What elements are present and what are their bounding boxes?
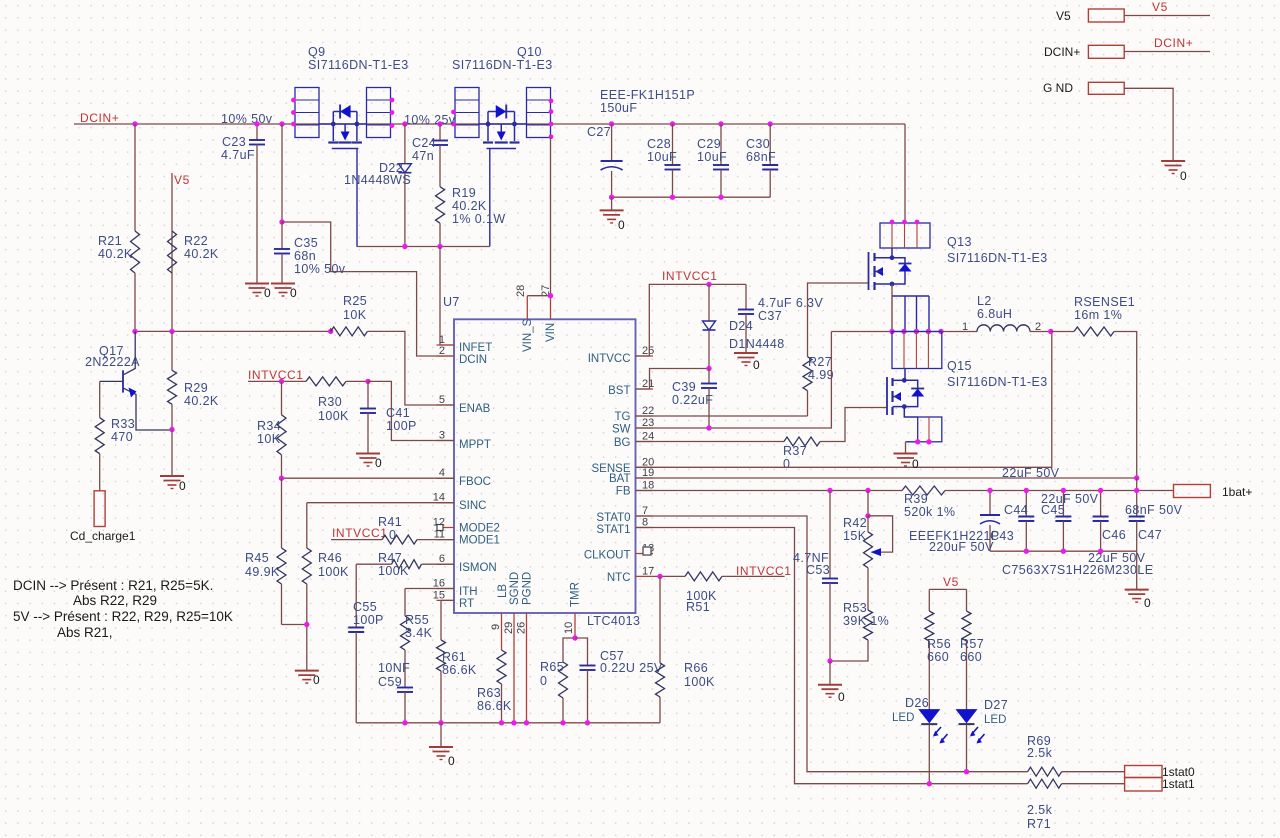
svg-text:LED: LED xyxy=(984,714,1006,726)
svg-text:Q10: Q10 xyxy=(517,45,542,59)
wire R29 to ground xyxy=(171,430,173,477)
junction D22 bottom xyxy=(402,244,407,249)
svg-text:26: 26 xyxy=(516,622,528,634)
pin stubs right xyxy=(636,355,654,357)
junction R19 top xyxy=(437,121,442,126)
svg-text:R45: R45 xyxy=(245,551,269,565)
svg-text:SI7116DN-T1-E3: SI7116DN-T1-E3 xyxy=(947,251,1048,265)
svg-text:0.22uF: 0.22uF xyxy=(672,393,713,407)
LED D27 xyxy=(957,710,977,723)
transistor Q13 package xyxy=(880,223,930,248)
junction C35 tap xyxy=(279,121,284,126)
junction Q13 pins xyxy=(890,220,895,225)
junction NTC xyxy=(657,574,662,579)
svg-text:660: 660 xyxy=(960,650,982,664)
junction FB C43 xyxy=(987,488,992,493)
svg-text:ISMON: ISMON xyxy=(459,562,497,574)
capacitor C28 xyxy=(672,124,674,165)
junction FB C45 xyxy=(1061,488,1066,493)
svg-text:25: 25 xyxy=(642,345,654,357)
transistor Q9 package right box xyxy=(367,88,391,138)
svg-text:LTC4013: LTC4013 xyxy=(587,614,640,628)
svg-text:1stat1: 1stat1 xyxy=(1162,777,1195,791)
svg-text:C27: C27 xyxy=(587,125,611,139)
capacitor C23 xyxy=(256,124,258,140)
svg-text:15K: 15K xyxy=(843,529,867,543)
resistor R37 xyxy=(784,437,820,446)
junction SW dots xyxy=(889,329,894,334)
svg-text:0.22U 25V: 0.22U 25V xyxy=(600,661,663,675)
junction Q15 source dots xyxy=(915,439,920,444)
svg-text:R42: R42 xyxy=(843,516,867,530)
junction bus2 C45 xyxy=(1061,549,1066,554)
svg-text:R37: R37 xyxy=(783,444,807,458)
junction R29 bottom xyxy=(169,427,174,432)
svg-text:V5: V5 xyxy=(1056,9,1071,23)
svg-text:5: 5 xyxy=(439,394,445,406)
svg-text:1bat+: 1bat+ xyxy=(1222,485,1252,499)
resistor R71 xyxy=(1028,779,1062,788)
svg-text:Q13: Q13 xyxy=(947,235,972,249)
component Cd_charge1 xyxy=(94,491,105,527)
transistor Q9 symbol xyxy=(328,141,338,143)
ground R29 xyxy=(160,475,184,477)
resistor R21 xyxy=(134,124,136,231)
svg-text:SI7116DN-T1-E3: SI7116DN-T1-E3 xyxy=(947,375,1048,389)
resistor R45 xyxy=(281,478,283,548)
svg-text:C24: C24 xyxy=(412,136,436,150)
svg-text:Abs R22, R29: Abs R22, R29 xyxy=(73,593,157,608)
wire SENSE net xyxy=(636,332,1052,468)
svg-text:DCIN+: DCIN+ xyxy=(1044,45,1080,59)
diode D22 xyxy=(404,124,406,164)
junction FB C44 xyxy=(1024,488,1029,493)
svg-text:0: 0 xyxy=(1144,596,1151,610)
svg-text:TMR: TMR xyxy=(570,582,582,607)
pin stubs left xyxy=(437,344,455,346)
svg-text:TG: TG xyxy=(615,411,631,423)
svg-text:L2: L2 xyxy=(977,294,992,308)
capacitor C53 xyxy=(829,491,831,579)
svg-text:520k 1%: 520k 1% xyxy=(904,505,955,519)
svg-text:10K: 10K xyxy=(343,308,367,322)
svg-text:15: 15 xyxy=(433,589,445,601)
svg-text:0: 0 xyxy=(313,673,320,687)
svg-text:SI7116DN-T1-E3: SI7116DN-T1-E3 xyxy=(452,58,553,72)
junction bus2 C44 xyxy=(1024,549,1029,554)
svg-text:R21: R21 xyxy=(98,234,122,248)
port 1bat+ xyxy=(1174,485,1211,498)
ground C35 xyxy=(271,283,295,285)
svg-text:100K: 100K xyxy=(684,675,715,689)
capacitor C35 xyxy=(281,222,283,249)
wire FBOC net xyxy=(282,477,455,479)
svg-text:R39: R39 xyxy=(904,492,928,506)
svg-text:40.2K: 40.2K xyxy=(98,247,133,261)
svg-text:R29: R29 xyxy=(184,381,208,395)
wire SW node xyxy=(831,331,941,333)
svg-text:19: 19 xyxy=(642,467,654,479)
svg-text:R46: R46 xyxy=(318,551,342,565)
svg-text:0: 0 xyxy=(540,674,547,688)
svg-text:100K: 100K xyxy=(318,565,349,579)
svg-text:5V --> Présent : R22, R29, R25: 5V --> Présent : R22, R29, R25=10K xyxy=(13,609,233,624)
svg-text:BG: BG xyxy=(614,437,631,449)
resistor R47 xyxy=(392,560,422,569)
junction FB C53 xyxy=(827,488,832,493)
junction C30 tap xyxy=(768,121,773,126)
svg-text:C44: C44 xyxy=(1004,503,1028,517)
svg-text:R34: R34 xyxy=(257,419,281,433)
transistor Q15 package top xyxy=(892,332,942,369)
svg-text:DCIN+: DCIN+ xyxy=(1154,36,1193,50)
svg-text:C35: C35 xyxy=(294,236,318,250)
resistor R27 xyxy=(807,391,809,416)
junction D24 top xyxy=(706,282,711,287)
svg-text:39K 1%: 39K 1% xyxy=(843,614,889,628)
svg-text:FBOC: FBOC xyxy=(459,476,491,488)
svg-text:23: 23 xyxy=(642,417,654,429)
svg-text:7: 7 xyxy=(642,505,648,517)
svg-text:29: 29 xyxy=(503,622,515,634)
svg-text:40.2K: 40.2K xyxy=(452,199,487,213)
junction C39 SW xyxy=(706,425,711,430)
pin 13 no-connect square xyxy=(643,547,651,555)
svg-text:V5: V5 xyxy=(1152,0,1168,14)
svg-text:INFET: INFET xyxy=(459,342,492,354)
junction FBOC xyxy=(279,476,284,481)
transistor Q10 symbol xyxy=(483,141,493,143)
wire FB net xyxy=(636,490,902,492)
capacitor C29 xyxy=(720,124,722,165)
svg-text:0: 0 xyxy=(1180,169,1187,183)
svg-text:10NF: 10NF xyxy=(378,661,410,675)
wire INFET to pin1 xyxy=(440,247,454,346)
junction bus C27 xyxy=(609,195,614,200)
svg-text:660: 660 xyxy=(927,650,949,664)
svg-text:R57: R57 xyxy=(960,637,984,651)
svg-text:RT: RT xyxy=(459,598,474,610)
svg-text:0: 0 xyxy=(375,456,382,470)
port 1stat0 xyxy=(1125,766,1162,778)
svg-text:PGND: PGND xyxy=(522,572,534,605)
svg-text:C39: C39 xyxy=(672,380,696,394)
svg-text:100P: 100P xyxy=(386,419,417,433)
svg-text:14: 14 xyxy=(433,492,445,504)
svg-text:C47: C47 xyxy=(1138,528,1162,542)
wire DCIN sense to pin2 xyxy=(282,222,454,356)
capacitor C47 xyxy=(1136,478,1138,517)
svg-text:R41: R41 xyxy=(378,515,402,529)
svg-text:Cd_charge1: Cd_charge1 xyxy=(70,529,136,543)
svg-text:Abs R21,: Abs R21, xyxy=(57,625,113,640)
junction C41 node xyxy=(365,379,370,384)
wire STAT0 net xyxy=(636,516,1028,772)
junction bus SGND xyxy=(511,720,516,725)
resistor R33 xyxy=(99,381,101,417)
svg-text:68nF: 68nF xyxy=(746,150,776,164)
svg-text:6.8uH: 6.8uH xyxy=(977,307,1012,321)
svg-text:SW: SW xyxy=(612,424,631,436)
wire STAT1 net xyxy=(636,528,1028,784)
wire BG net xyxy=(636,441,784,443)
junction VIN xyxy=(548,293,553,298)
junction bus C57 xyxy=(585,720,590,725)
svg-text:40.2K: 40.2K xyxy=(184,247,219,261)
svg-text:D26: D26 xyxy=(905,696,929,710)
svg-text:LED: LED xyxy=(892,712,914,724)
svg-text:C30: C30 xyxy=(746,137,770,151)
wire base rail y331 xyxy=(135,330,331,332)
svg-text:2N2222A: 2N2222A xyxy=(85,355,140,369)
svg-text:18: 18 xyxy=(642,480,654,492)
capacitor C44 xyxy=(1025,491,1027,517)
junction TMR xyxy=(572,635,577,640)
svg-text:R33: R33 xyxy=(111,417,135,431)
svg-text:9: 9 xyxy=(490,624,502,630)
junction BAT end xyxy=(1134,475,1139,480)
svg-text:D24: D24 xyxy=(729,319,753,333)
wire DCIN+ rail xyxy=(74,123,905,125)
junction R25 left xyxy=(328,329,333,334)
wire MPPT net xyxy=(368,381,454,440)
svg-text:86.6K: 86.6K xyxy=(442,663,477,677)
wire BAT net xyxy=(636,477,1137,479)
junction D27 stat0 xyxy=(964,769,969,774)
svg-text:16: 16 xyxy=(433,578,445,590)
svg-text:0: 0 xyxy=(753,358,760,372)
transistor Q15 package bottom xyxy=(904,407,917,417)
svg-text:16m 1%: 16m 1% xyxy=(1074,308,1122,322)
pin 12 no-connect square xyxy=(437,525,443,531)
svg-text:1: 1 xyxy=(962,321,968,333)
resistor R42 rheostat xyxy=(867,491,869,516)
svg-text:SINC: SINC xyxy=(459,500,486,512)
wire V5 LED feed xyxy=(929,588,966,590)
svg-text:21: 21 xyxy=(642,378,654,390)
svg-text:C53: C53 xyxy=(806,563,830,577)
svg-text:0: 0 xyxy=(179,479,186,493)
svg-text:NTC: NTC xyxy=(607,572,631,584)
resistor RSENSE1 xyxy=(1051,331,1074,333)
resistor R61 xyxy=(440,600,442,640)
resistor R65 xyxy=(563,638,575,662)
svg-text:INTVCC1: INTVCC1 xyxy=(736,564,792,578)
diode D24 xyxy=(708,284,710,321)
svg-text:4.99: 4.99 xyxy=(808,368,834,382)
wire TG net xyxy=(636,415,808,417)
wire Q13 source to SW xyxy=(891,284,893,296)
svg-text:28: 28 xyxy=(515,285,527,297)
svg-text:BAT: BAT xyxy=(609,473,631,485)
svg-text:R61: R61 xyxy=(442,650,466,664)
junction R34 top xyxy=(279,379,284,384)
svg-text:INTVCC1: INTVCC1 xyxy=(662,269,718,283)
svg-text:220uF 50V: 220uF 50V xyxy=(929,540,994,554)
wire VIN feed xyxy=(550,137,552,296)
resistor R19 xyxy=(436,187,445,224)
wire cap bank bus xyxy=(612,196,771,198)
svg-text:SGND: SGND xyxy=(509,572,521,605)
svg-text:FB: FB xyxy=(616,486,631,498)
transistor Q10 package right box xyxy=(527,88,551,138)
resistor R63 xyxy=(497,650,506,684)
junction R22 bottom xyxy=(169,329,174,334)
junction L2 RSENSE xyxy=(1048,329,1053,334)
ground C41 xyxy=(356,453,380,455)
ground C53 xyxy=(829,661,831,685)
svg-text:150uF: 150uF xyxy=(600,101,637,115)
svg-text:R22: R22 xyxy=(184,234,208,248)
svg-text:0: 0 xyxy=(448,754,455,768)
svg-text:R30: R30 xyxy=(318,395,342,409)
svg-text:1% 0.1W: 1% 0.1W xyxy=(452,212,506,226)
svg-text:0: 0 xyxy=(838,690,845,704)
resistor R29 xyxy=(171,331,173,370)
svg-text:10uF: 10uF xyxy=(647,150,677,164)
resistor R57 xyxy=(962,611,971,641)
svg-text:U7: U7 xyxy=(443,295,460,309)
svg-text:10% 25v: 10% 25v xyxy=(404,113,456,127)
ground cap bus xyxy=(1136,551,1138,589)
svg-text:LB: LB xyxy=(497,584,509,598)
svg-text:V5: V5 xyxy=(943,575,959,589)
svg-text:0: 0 xyxy=(264,286,271,300)
svg-text:3.4K: 3.4K xyxy=(405,626,433,640)
junction bus R65 xyxy=(560,720,565,725)
svg-text:0: 0 xyxy=(290,286,297,300)
wire INFET gate net xyxy=(357,246,490,248)
svg-text:DCIN --> Présent : R21, R25=5K: DCIN --> Présent : R21, R25=5K. xyxy=(13,578,213,593)
svg-text:C59: C59 xyxy=(378,675,402,689)
resistor R53 xyxy=(867,568,869,610)
junction C29 tap xyxy=(718,121,723,126)
wire INTVCC net xyxy=(636,284,746,356)
svg-text:C55: C55 xyxy=(353,600,377,614)
svg-text:R25: R25 xyxy=(343,294,367,308)
svg-text:STAT1: STAT1 xyxy=(596,524,630,536)
svg-text:0: 0 xyxy=(618,218,625,232)
svg-text:22uF 50V: 22uF 50V xyxy=(1002,466,1060,480)
svg-text:CLKOUT: CLKOUT xyxy=(584,550,631,562)
junction R21 tap xyxy=(132,121,137,126)
ground GND port xyxy=(1161,160,1185,162)
capacitor C57 xyxy=(575,638,588,666)
resistor R30 xyxy=(306,377,346,386)
junction FB C46 xyxy=(1098,488,1103,493)
junction bus C59 xyxy=(402,720,407,725)
transistor Q9 package left box xyxy=(295,88,319,138)
junction C53 R53 xyxy=(827,658,832,663)
svg-text:49.9K: 49.9K xyxy=(245,565,280,579)
svg-text:24: 24 xyxy=(642,431,654,443)
svg-text:R47: R47 xyxy=(378,551,402,565)
junction FB C47 xyxy=(1134,488,1139,493)
svg-text:VIN: VIN xyxy=(545,323,557,342)
pin 29 SGND xyxy=(513,613,515,723)
svg-text:D1N4448: D1N4448 xyxy=(729,337,785,351)
wire cap bus 2 xyxy=(990,550,1137,552)
ground C37 xyxy=(734,352,758,354)
ground C23 xyxy=(245,283,269,285)
svg-text:C29: C29 xyxy=(697,137,721,151)
svg-text:1N4448WS: 1N4448WS xyxy=(344,173,411,187)
svg-text:100K: 100K xyxy=(318,409,349,423)
svg-text:INTVCC1: INTVCC1 xyxy=(248,368,304,382)
pin 10 TMR xyxy=(574,613,576,638)
capacitor C27 xyxy=(611,124,613,161)
svg-text:ENAB: ENAB xyxy=(459,403,491,415)
LED D26 xyxy=(919,710,939,723)
svg-text:6: 6 xyxy=(439,553,445,565)
svg-text:V5: V5 xyxy=(174,173,190,187)
svg-text:100K: 100K xyxy=(378,564,409,578)
svg-text:MODE2: MODE2 xyxy=(459,523,500,535)
svg-text:RSENSE1: RSENSE1 xyxy=(1074,295,1135,309)
junction C35 node xyxy=(279,219,284,224)
junction D22 top xyxy=(402,121,407,126)
wire Q13 feed from rail xyxy=(904,124,906,223)
junction bus2 C46 xyxy=(1098,549,1103,554)
svg-text:100P: 100P xyxy=(353,613,384,627)
junction INFET node xyxy=(437,244,442,249)
svg-text:Q9: Q9 xyxy=(308,45,325,59)
resistor R22 xyxy=(168,231,177,273)
svg-text:VIN_S: VIN_S xyxy=(522,318,534,352)
wire SW net xyxy=(636,332,831,429)
capacitor C30 xyxy=(769,124,771,165)
svg-text:R19: R19 xyxy=(452,186,476,200)
svg-text:C23: C23 xyxy=(222,135,246,149)
svg-text:R65: R65 xyxy=(540,660,564,674)
svg-text:R51: R51 xyxy=(686,600,710,614)
svg-text:D27: D27 xyxy=(984,698,1008,712)
svg-text:4: 4 xyxy=(439,467,445,479)
capacitor C46 xyxy=(1100,491,1102,517)
svg-text:22: 22 xyxy=(642,405,654,417)
ground R46 xyxy=(295,670,319,672)
wire INTVCC1 to R30 xyxy=(248,380,306,382)
junction bus R63 xyxy=(499,720,504,725)
svg-text:ITH: ITH xyxy=(459,586,478,598)
wire ISMON net xyxy=(356,563,391,565)
junction bus C29 xyxy=(718,195,723,200)
svg-text:8: 8 xyxy=(642,517,648,529)
svg-text:MODE1: MODE1 xyxy=(459,535,500,547)
resistor R25 xyxy=(330,328,332,332)
svg-text:10% 50v: 10% 50v xyxy=(221,112,273,126)
capacitor C55 xyxy=(355,564,357,627)
transistor Q13 symbol xyxy=(868,252,870,290)
op-amp U7 LTC4013 body xyxy=(454,319,636,613)
svg-text:0: 0 xyxy=(389,528,396,542)
capacitor C39 xyxy=(708,369,710,384)
capacitor C59 xyxy=(397,687,413,689)
wire RT net xyxy=(441,599,454,601)
svg-text:Q15: Q15 xyxy=(947,359,972,373)
svg-text:4.7uF: 4.7uF xyxy=(221,148,255,162)
svg-text:40.2K: 40.2K xyxy=(184,394,219,408)
capacitor C43 xyxy=(989,491,991,516)
svg-text:2: 2 xyxy=(439,345,445,357)
svg-text:R66: R66 xyxy=(684,661,708,675)
port 1stat1 xyxy=(1125,778,1162,792)
svg-text:BST: BST xyxy=(608,385,630,397)
svg-text:R71: R71 xyxy=(1027,817,1051,831)
svg-text:10K: 10K xyxy=(257,432,281,446)
svg-text:R56: R56 xyxy=(927,637,951,651)
svg-text:0: 0 xyxy=(912,457,919,471)
